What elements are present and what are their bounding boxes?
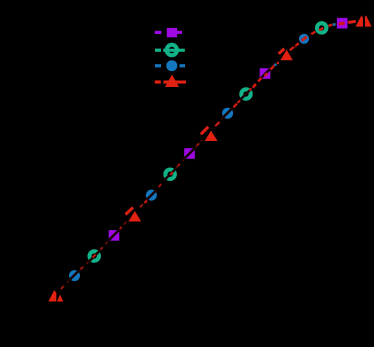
wire dash inside G4 hole [319,28,323,30]
legend red triangle [165,75,179,88]
series markers: blue filled circles [69,34,309,281]
wire fleck in G2 hole [170,172,173,174]
wire dash before G3 [238,101,241,104]
wire dash inside B4 [302,37,307,41]
legend blue circle [166,60,177,71]
legend purple line right dash [177,31,182,34]
legend teal ring [167,45,177,55]
dashed dark red data line (under markers, skipping triangles) [61,22,352,290]
wire dash inside P4 [339,22,345,26]
blue circle B4 [299,34,309,44]
wire dash inside P3 slash [265,73,268,76]
red fleck at P3 upper right [277,62,279,64]
slash over P3 [259,67,273,81]
wire dash above P3 [271,66,275,70]
slash over B1 [68,270,80,282]
legend red line left dash [155,80,161,83]
wire dash at R3 [201,127,209,135]
slash over G1 [88,250,101,263]
blue dash bit between G4 and P4 [333,23,336,26]
dark slashes crossing the lower-cluster markers [68,67,272,282]
legend blue line right dash [180,64,186,67]
purple square P1 [109,230,120,241]
wire dash at R2 [126,208,134,215]
legend [155,28,186,87]
wire dash between B4 and G4 [312,32,316,34]
purple square P2 [184,148,195,159]
wire fleck below B2 [145,201,148,204]
series markers: teal open circles [90,23,327,261]
legend teal line left dash [155,49,161,52]
red triangle R5 right piece [365,16,372,27]
red triangle R5 left piece [356,16,364,27]
legend teal line centre dash [163,49,185,52]
purple square P3 [260,68,271,79]
legend blue line left dash [155,64,161,67]
teal ring G4 [317,23,326,32]
red triangle R4 [280,50,292,60]
wire dash below P3 [258,78,262,82]
red triangle R1 left piece [48,290,56,301]
sparse brighter red flecks along the line [61,63,277,289]
wire dash before B4 [296,43,299,45]
wire dash between R4 and B4 [290,47,294,50]
slash over B2 [145,190,157,202]
blue fleck above P3 [274,64,276,66]
wire fleck in G1 hole [93,255,96,258]
wire dash at R4 [279,49,285,54]
blue circle B3 [222,108,233,119]
slash over P2 [183,147,196,160]
blue circle B2 [146,190,157,201]
series markers: red triangles [48,16,371,302]
wire dash at R5 [348,21,356,22]
slash over G2 [164,168,177,181]
slash over P1 [107,229,120,242]
wire fleck at G3 upper edge [249,88,251,90]
wire dash between G4 and P4 [329,25,333,26]
series markers: purple squares [109,18,348,241]
wire dash between G3 and P3 [253,84,256,87]
teal ring G1 [90,251,99,260]
slash over B3 [221,108,233,120]
teal ring G3 [241,89,250,98]
red triangle R3 [205,131,218,142]
teal ring G2 [165,170,174,179]
wire dash between B3 and G3 [234,104,238,108]
wire dash after R3 [216,122,220,126]
legend purple square [167,28,177,37]
legend red line centre dash [164,81,187,84]
slash over G3 [240,88,253,101]
purple square P4 [337,18,348,29]
red triangle R1 right piece [57,295,64,302]
legend purple line left dash [155,31,162,34]
red triangle R2 [128,211,141,222]
bright red line dashes (red series) [126,21,356,214]
blue circle B1 [69,270,80,281]
